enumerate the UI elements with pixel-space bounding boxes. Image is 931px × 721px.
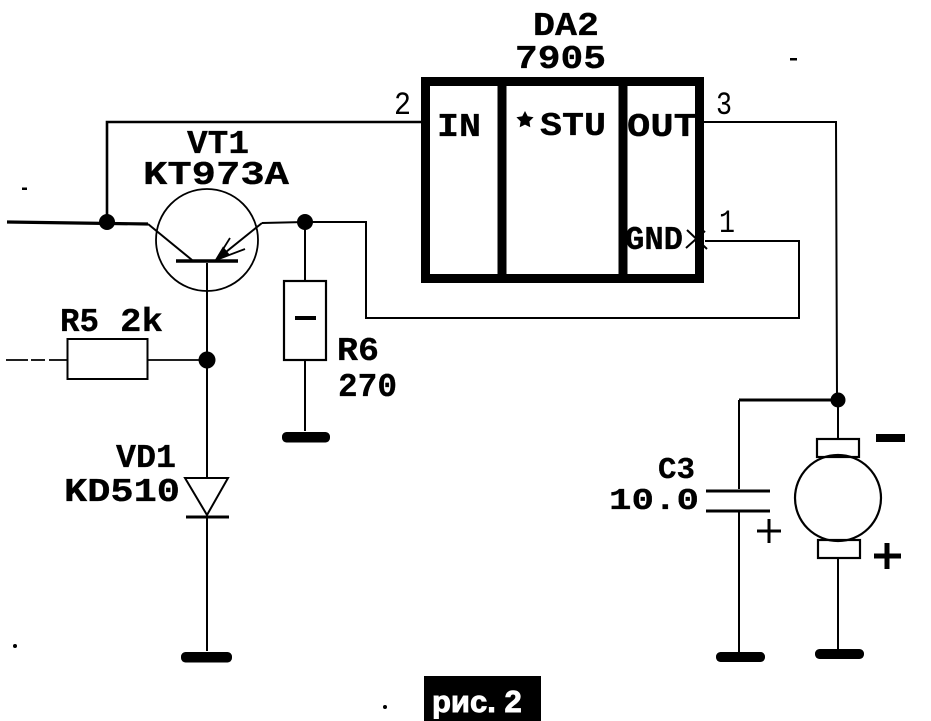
wire: left input to R5 <box>6 359 67 361</box>
svg-text:IN: IN <box>437 109 481 146</box>
svg-text:7905: 7905 <box>515 41 606 78</box>
motor plus polarity mark <box>874 543 901 569</box>
C3 plus polarity mark <box>757 519 781 543</box>
svg-text:рис. 2: рис. 2 <box>432 684 522 719</box>
wire: node D to motor M1 <box>837 400 839 439</box>
ground (below C3) <box>716 652 765 662</box>
svg-text:2: 2 <box>394 87 411 124</box>
motor M1 (DC motor with brushes) <box>795 439 881 558</box>
IC DA2 (7905 voltage regulator) body <box>426 81 700 279</box>
label C3 <box>658 453 695 488</box>
svg-text:3: 3 <box>716 87 732 124</box>
label VT1 <box>187 126 249 163</box>
diode VD1 (KD510) <box>185 478 229 517</box>
label R6 <box>337 333 379 370</box>
wire: DA2 OUT pin 3 to node D <box>704 122 837 399</box>
wire: R6 to ground <box>304 360 306 431</box>
wire: C3 to ground <box>738 512 740 652</box>
label DA2 <box>533 8 599 45</box>
VT1 emitter arrowhead <box>214 247 230 262</box>
ground (below VD1) <box>181 652 232 663</box>
svg-text:OUT: OUT <box>627 109 697 146</box>
capacitor C3 (10.0 electrolytic) <box>706 491 770 511</box>
svg-text:R5: R5 <box>60 304 99 341</box>
svg-text:KD510: KD510 <box>64 474 180 511</box>
ground (below motor) <box>815 649 864 659</box>
scan specks <box>13 58 797 709</box>
svg-text:270: 270 <box>338 369 397 406</box>
svg-text:DA2: DA2 <box>533 8 599 45</box>
svg-text:2k: 2k <box>120 304 163 341</box>
motor minus polarity mark <box>876 434 905 442</box>
label STU <box>540 108 606 145</box>
pin 2 label <box>394 87 411 124</box>
label 10.0 <box>609 484 699 519</box>
node A (junction dot, input / VT1 collector) <box>99 214 115 230</box>
wire: VT1 emitter to node C <box>262 222 305 223</box>
resistor R5 <box>68 339 148 379</box>
svg-text:VD1: VD1 <box>116 440 176 477</box>
node B (junction dot, VT1 base / R5 / VD1) <box>199 352 216 369</box>
label R5 2k <box>60 304 163 341</box>
wire: motor to ground <box>837 558 839 650</box>
svg-text:10.0: 10.0 <box>609 484 699 519</box>
label 270 <box>338 369 397 406</box>
caption box: рис. 2 <box>424 676 541 721</box>
pin 3 label <box>716 87 732 124</box>
ground (below R6) <box>282 432 330 443</box>
label *STU (star mark) <box>516 111 533 127</box>
GND pin arrow mark <box>686 230 707 249</box>
label KT973A <box>143 157 289 194</box>
label IN (DA2 pin region) <box>437 109 481 146</box>
label GND <box>625 222 683 259</box>
resistor R6 <box>284 281 326 360</box>
svg-text:R6: R6 <box>337 333 379 370</box>
wire: node B to diode VD1 anode <box>206 360 208 478</box>
svg-text:GND: GND <box>625 222 683 259</box>
wire: node C to R6 <box>304 222 306 281</box>
label OUT <box>627 109 697 146</box>
wire: R5 to node B <box>147 359 207 361</box>
svg-text:1: 1 <box>719 205 735 242</box>
label VD1 <box>116 440 176 477</box>
wire: node D to capacitor C3 <box>739 399 838 402</box>
label KD510 <box>64 474 180 511</box>
wire: top bus from node A to DA2 pin 2 <box>107 122 421 223</box>
node C (junction dot, emitter / R6 / GND net) <box>297 214 313 230</box>
node D (junction dot, OUT net / C3 / motor) <box>831 393 846 408</box>
pin 1 label <box>719 205 735 242</box>
svg-text:STU: STU <box>540 108 606 145</box>
svg-text:C3: C3 <box>658 453 695 488</box>
svg-text:KT973A: KT973A <box>143 157 289 194</box>
wire: left input to node A <box>7 222 148 224</box>
transistor VT1 (PNP darlington KT973A) <box>148 189 262 360</box>
wire: VD1 cathode to ground <box>206 517 208 651</box>
wire: node C to DA2 GND pin 1 (routed down and right) <box>305 222 799 318</box>
label 7905 <box>515 41 606 78</box>
